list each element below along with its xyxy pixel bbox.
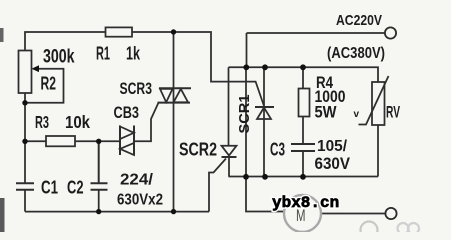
svg-text:1k: 1k — [126, 44, 141, 64]
svg-text:v: v — [354, 109, 360, 120]
svg-text:630V: 630V — [315, 155, 351, 173]
svg-text:RV: RV — [386, 103, 400, 122]
svg-text:CB3: CB3 — [114, 104, 140, 122]
svg-text:R3: R3 — [35, 112, 49, 132]
svg-text:R2: R2 — [41, 74, 57, 94]
svg-text:C3: C3 — [270, 140, 285, 160]
svg-text:630Vx2: 630Vx2 — [117, 192, 163, 209]
svg-text:SCR2: SCR2 — [179, 140, 217, 160]
svg-text:C1: C1 — [41, 178, 58, 198]
svg-text:SCR3: SCR3 — [120, 80, 153, 98]
svg-text:5W: 5W — [315, 103, 338, 122]
svg-text:105/: 105/ — [317, 138, 348, 155]
svg-text:AC220V: AC220V — [336, 12, 382, 29]
svg-text:R1: R1 — [96, 44, 110, 64]
svg-text:SCR1: SCR1 — [236, 95, 253, 134]
svg-text:10k: 10k — [65, 112, 90, 132]
svg-text:300k: 300k — [43, 47, 75, 68]
svg-text:C2: C2 — [67, 178, 84, 198]
svg-text:ybx8.cn: ybx8.cn — [272, 194, 339, 212]
svg-text:(AC380V): (AC380V) — [327, 45, 385, 62]
svg-text:224/: 224/ — [120, 172, 154, 189]
